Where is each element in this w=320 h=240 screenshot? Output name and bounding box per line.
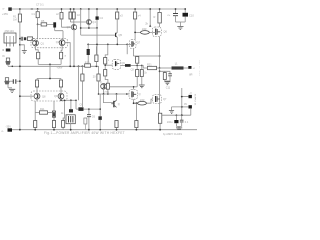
capacitor C3 electrolytic black [53, 22, 63, 40]
dual transistor dashed box TR2 [31, 91, 67, 101]
wire arrow mark on rail [30, 8, 33, 10]
transistor Q1 circle [33, 39, 39, 47]
node junction x80.7 y28 [80, 27, 82, 29]
node junction x181.8 y107.2 [181, 106, 183, 108]
mosfet Q7 output lower dashed [153, 95, 162, 104]
resistor R4a [69, 9, 86, 22]
resistor R12 [97, 66, 100, 94]
transistor Q5b circle [86, 9, 91, 28]
node junction x126.9 y94 [126, 93, 128, 95]
ground mid-left [22, 51, 27, 54]
terminal +35V top-left [8, 7, 12, 10]
resistor R7 emitter Q1 [36, 47, 40, 64]
transistor Q5c bars [116, 32, 118, 44]
node junction x70.7 rail [70, 129, 72, 131]
svg-text:C11: C11 [166, 86, 171, 89]
capacitor C8b [140, 66, 143, 85]
svg-text:16r: 16r [63, 118, 67, 121]
node junction x76 y100.3 [75, 100, 77, 102]
svg-text:+36V: +36V [57, 67, 63, 70]
node junction x175.5 rail [175, 8, 177, 10]
wire gate tap FET-A [105, 64, 112, 66]
resistor R2 [36, 9, 39, 24]
wire x181.8 vertical [181, 88, 183, 115]
resistor R21 horizontal [142, 66, 160, 70]
svg-text:Q: Q [139, 93, 141, 96]
node junction x88.9 y109.1 [88, 108, 90, 110]
svg-text:Q4: Q4 [92, 20, 96, 24]
capacitor C14 [180, 115, 184, 126]
resistor R13 [116, 9, 119, 32]
node junction x98.5 y94 [98, 93, 100, 95]
mosfet Q6 output upper dashed [152, 27, 161, 68]
mosfet QA dashed driver upper [112, 59, 120, 69]
node junction R1 top rail [19, 8, 21, 10]
svg-text:Q3: Q3 [67, 25, 71, 29]
node junction x37.6 y24.4 [37, 24, 39, 26]
svg-text:c+: c+ [168, 14, 171, 17]
node junction x70.9 y100.3 [70, 99, 72, 101]
svg-text:by ANDY CLASS: by ANDY CLASS [163, 133, 182, 136]
wire y94 lower bias [99, 93, 127, 95]
svg-text:Q1: Q1 [41, 42, 45, 45]
node junction x37.6 rail [37, 8, 39, 10]
wire caps join y22 [176, 22, 186, 26]
svg-text:0.1: 0.1 [185, 121, 189, 124]
resistor R15 [95, 55, 98, 62]
node junction x137.2 y65.5 [136, 65, 138, 67]
node junction x141.8 y65.5 [141, 65, 143, 67]
node junction x97 y66 [96, 65, 98, 67]
svg-text:R: R [154, 15, 156, 19]
svg-text:R11: R11 [40, 108, 45, 111]
node junction x103.5 y94 [103, 93, 105, 95]
svg-text:-35V: -35V [6, 125, 12, 129]
ground input [9, 89, 15, 92]
svg-text:x2: x2 [56, 12, 59, 16]
resistor R8L emitter [35, 79, 38, 88]
node junction output x159.6 y68 [159, 67, 161, 69]
capacitor C13 electrolytic [174, 115, 178, 126]
svg-text:Q2: Q2 [56, 41, 60, 44]
wire x80.7 vertical [80, 9, 82, 35]
node junction x20 y38.6 [19, 38, 21, 40]
node junction x97 y44.4 [96, 44, 98, 46]
wire x97 down [96, 28, 98, 56]
terminal output [188, 66, 191, 69]
svg-text:Q: Q [100, 81, 102, 84]
node junction x20 y96.2 [19, 95, 21, 97]
wire Q2 collector to x70.2 [65, 43, 70, 66]
resistor R26 bottom x64.5 [62, 100, 65, 129]
node junction x12.3 y66.3 [12, 66, 14, 68]
svg-text:C8: C8 [131, 69, 135, 72]
resistor R19b [136, 66, 139, 87]
resistor R18 drain [158, 9, 161, 27]
resistor R16b [104, 70, 108, 84]
wire x97 y44.4 to R15 [95, 44, 98, 55]
node junction x61 y100.3 [60, 100, 62, 102]
svg-text:Q7: Q7 [163, 98, 167, 101]
label pins bar [6, 49, 11, 52]
node junction x116.5 y94 [116, 93, 118, 95]
svg-text:Q6: Q6 [164, 31, 168, 34]
wire x78.5 down [78, 66, 80, 100]
node junction x64.5 y100.3 [64, 100, 66, 102]
node junction x54 rail [53, 129, 55, 131]
node junction x54 y112.5 [53, 112, 55, 114]
svg-text:C4: C4 [100, 16, 104, 20]
resistor R1 [18, 9, 21, 130]
dual transistor dashed box TR1 [31, 38, 68, 48]
node junction x80.7 rail [80, 8, 82, 10]
wire bottom -35V rail y=129.7 [12, 129, 197, 131]
resistor R24 bottom x35.2 [34, 101, 37, 130]
wire x136.4 down [135, 103, 137, 120]
mosfet QC dashed driver lower [127, 90, 138, 104]
node junction x50 y78.5 [49, 78, 51, 80]
package drawing 2SK134 [4, 29, 16, 46]
capacitor C10 electrolytic [183, 9, 189, 22]
svg-text:1k: 1k [144, 72, 147, 75]
svg-text:-o: -o [193, 67, 196, 70]
resistor R9L emitter [59, 79, 62, 88]
node junction x97 rail [96, 8, 98, 10]
svg-text:Fig.1—POWER AMPLIFIER 40W WITH: Fig.1—POWER AMPLIFIER 40W WITH HEXFET [44, 131, 125, 135]
node junction x20 y81.2 [19, 80, 21, 82]
wire x76 down [76, 100, 78, 109]
svg-text:-V: -V [189, 92, 192, 95]
resistor R22 zobel [163, 73, 166, 82]
resistor R11h bottom horizontal [35, 111, 54, 114]
transistor Q9 circle [101, 84, 107, 95]
svg-text:Q6: Q6 [121, 62, 125, 65]
capacitor C8 vertical [87, 109, 91, 130]
svg-text:SUPPLY 35: SUPPLY 35 [194, 94, 196, 106]
capacitor C6 dark horizontal [78, 107, 100, 111]
svg-text:0V: 0V [184, 103, 187, 106]
node junction x107.9 y94 [107, 93, 109, 95]
transistor Q2 circle [59, 40, 65, 46]
input jack J2 [4, 78, 13, 85]
wire arrow R17 [149, 25, 151, 27]
svg-text:Q8: Q8 [42, 95, 46, 98]
resistor R14 [134, 9, 137, 40]
node junction x159.8 rail [159, 129, 161, 131]
node junction x185.2 rail [184, 8, 186, 10]
wire base y35.1 [81, 34, 116, 36]
node junction x135.1 rail [134, 8, 136, 10]
svg-text:L1: L1 [175, 63, 178, 66]
svg-text:Q7: Q7 [137, 42, 141, 45]
svg-text:C1: C1 [32, 12, 36, 16]
svg-text:2SK134: 2SK134 [5, 29, 15, 33]
svg-text:Q: Q [118, 103, 120, 106]
transistor Q4L circle [58, 87, 64, 100]
svg-text:2k: 2k [145, 22, 148, 26]
node junction x105.2 y65.2 [104, 64, 106, 66]
ground top right [177, 27, 183, 30]
node junction x118.4 rail [116, 129, 118, 131]
capacitor dark x70.9 [69, 100, 73, 112]
capacitor C12 x54 [52, 101, 55, 121]
ground bottom right [176, 128, 182, 129]
transistor Q10 bars [111, 94, 116, 107]
node junction x136.4 y103.2 [136, 102, 138, 104]
svg-text:1M: 1M [13, 18, 17, 22]
fuse oval gate Q6 [135, 31, 152, 35]
node junction x159.6 rail [159, 8, 161, 10]
svg-text:o-: o- [2, 130, 4, 133]
node junction x50 y64.4 [49, 64, 51, 66]
wire R15 bottom [95, 62, 97, 67]
svg-text:x3: x3 [120, 14, 123, 18]
node junction x70.2 y66 [69, 65, 71, 67]
terminal -V right T1 [182, 95, 192, 98]
resistor R10 feedback [85, 64, 91, 67]
wire caps join y124.8 [176, 126, 181, 127]
resistor R3 [60, 9, 71, 27]
node junction x107.8 y44.4 [107, 44, 109, 46]
node junction x70.4 rail [70, 8, 72, 10]
transistor Q3L circle [34, 87, 40, 101]
capacitor C9 [173, 9, 178, 22]
wire emitters join y64.4 [38, 63, 61, 65]
ground below C8b [139, 85, 145, 88]
svg-text:100u: 100u [167, 121, 173, 124]
svg-text:x4: x4 [138, 14, 141, 18]
diode D1 [121, 64, 142, 67]
wire x50 down [49, 64, 51, 78]
svg-text:R5: R5 [41, 19, 45, 23]
svg-text:Q9: Q9 [54, 95, 58, 98]
node junction x82.4 y66 [82, 65, 84, 67]
mosfet QB dashed [127, 40, 136, 49]
node junction x35.2 rail [34, 129, 36, 131]
node junction x73.8 rail [73, 8, 75, 10]
fuse oval gate Q7 [134, 99, 153, 105]
capacitor C11 zobel [168, 74, 172, 81]
svg-text:x: x [108, 59, 110, 62]
node junction x136.4 rail [136, 129, 138, 131]
resistor R5 horizontal [38, 23, 54, 26]
wire output column down [159, 68, 161, 113]
inductor L1 [160, 66, 189, 69]
node junction x117.3 y44.4 [116, 44, 118, 46]
wire y44.4 VAS [88, 43, 127, 45]
wire x127.2 down [126, 44, 128, 54]
node junction x88.9 rail [88, 129, 90, 131]
svg-text:+35V: +35V [2, 12, 8, 16]
resistor R28 bottom x136.4 [135, 121, 138, 130]
node junction x100.2 y109.1 [99, 108, 101, 110]
svg-text:Q5: Q5 [119, 33, 123, 37]
resistor R6 base horizontal [27, 37, 33, 41]
node junction x159.6 y71.3 [159, 70, 161, 72]
capacitor C15 dark x100.2 [98, 94, 101, 130]
terminal -35V bottom-left [8, 128, 13, 131]
wire lower emitters y78.5 [37, 78, 61, 80]
trimmer VR1 [66, 115, 75, 130]
wire Q3L base [20, 95, 34, 97]
node junction x135.1 y32.4 [134, 32, 136, 34]
wire x37.6 down to Q1 [37, 24, 39, 39]
node junction x178.8 y115.2 [176, 114, 178, 116]
resistor Rvbe [106, 83, 109, 94]
ground zobel [164, 82, 170, 85]
wire zobel join y81 [165, 80, 170, 83]
node junction x20 y66.3 [19, 65, 21, 67]
svg-text:C2: C2 [77, 14, 81, 17]
svg-text:10R: 10R [140, 99, 145, 102]
wire gate R17 line [149, 9, 151, 27]
svg-text:10R: 10R [142, 28, 147, 31]
zobel top wire [160, 71, 170, 74]
resistor R19a [133, 49, 159, 66]
node junction x133.6 y103.2 [133, 102, 135, 104]
ground right mid [169, 111, 174, 114]
capacitor C2 input [21, 37, 26, 41]
node junction x150.2 rail [149, 8, 151, 10]
node junction x181.8 y96.6 [181, 96, 183, 98]
node junction x20 y44.8 [19, 44, 21, 46]
capacitor C5a dark x88.2 [87, 44, 90, 64]
node junction x97 y28 [96, 27, 98, 29]
resistor R29 small [84, 118, 87, 130]
wire y115.2 neg feed [162, 109, 191, 115]
wire ground stub input [8, 85, 12, 88]
transistor Q5a circle [71, 25, 76, 67]
label pin circle [3, 49, 4, 50]
node junction x133.6 y86.8 [133, 86, 135, 88]
wire y100.3 lower [61, 99, 76, 101]
resistor R4b [72, 9, 75, 25]
wire ground stub y44.8 [20, 45, 24, 51]
svg-text:R10: R10 [85, 62, 90, 65]
capacitor C4 electrolytic [96, 9, 99, 28]
node junction x19.9 rail [19, 129, 21, 131]
svg-text:20: 20 [93, 76, 96, 79]
capacitor C5 input [13, 79, 20, 84]
svg-text:8R: 8R [189, 73, 192, 76]
svg-text:1k: 1k [61, 112, 64, 115]
svg-text:a: a [65, 55, 67, 58]
svg-text:R21: R21 [147, 63, 152, 66]
svg-text:C10: C10 [189, 13, 194, 17]
node junction x159.6 y56 [159, 55, 161, 57]
wire T2 ground y106.9 [172, 107, 182, 110]
wire bias y28 [81, 27, 97, 29]
resistor R16a [104, 44, 108, 69]
svg-text:OUTPUT TO LS: OUTPUT TO LS [199, 60, 201, 76]
node junction x61.5 rail [61, 8, 63, 10]
node junction x127.2 y44.4 [126, 44, 128, 46]
resistor R23 output bottom [158, 113, 161, 130]
svg-text:IN: IN [2, 55, 5, 58]
input jack J1 [5, 58, 50, 66]
terminal 0V right T2 [182, 105, 192, 108]
node junction x117.2 rail [116, 8, 118, 10]
svg-text:o-: o- [3, 8, 5, 11]
node junction x88.9 rail top [88, 8, 90, 10]
wire FET-C drain [109, 87, 137, 90]
wire Q10 base from Q9 column [104, 94, 114, 103]
resistor R25 bottom x54 [52, 121, 55, 130]
resistor R11v x82.4 [81, 66, 84, 107]
node junction x100.2 rail [99, 129, 101, 131]
node junction x181.8 y115.2 [181, 114, 183, 116]
wire top +35V rail y=9 [12, 8, 186, 10]
node junction x88.2 y44.4 [87, 44, 89, 46]
node junction x74 y66 [73, 65, 75, 67]
node junction x78.5 y66 [78, 65, 80, 67]
wire feedback y66 [50, 65, 99, 67]
svg-text:C7 0.1: C7 0.1 [36, 3, 44, 7]
svg-text:C6: C6 [92, 115, 96, 118]
node junction x88.9 y28 [88, 27, 90, 29]
resistor R27 bottom x118.4 [115, 121, 118, 130]
resistor R8 emitter Q2 [60, 46, 63, 65]
